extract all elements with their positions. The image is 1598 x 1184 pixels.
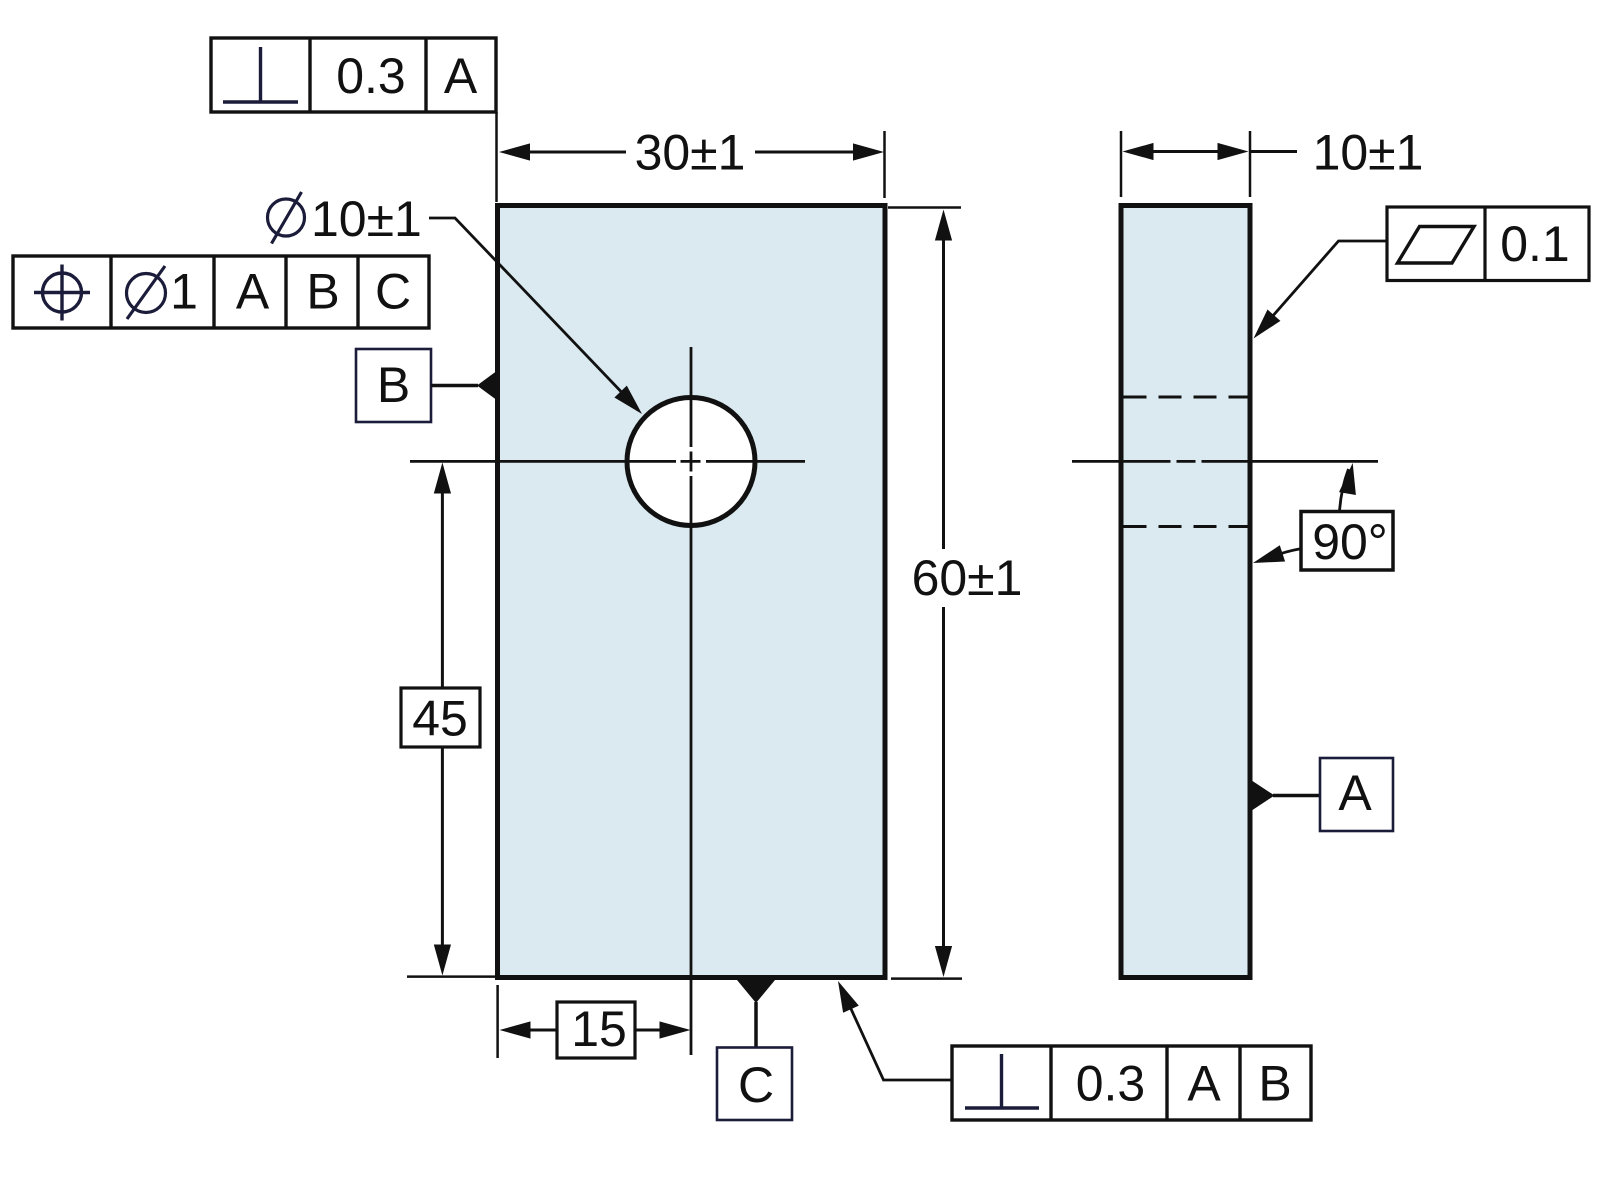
dimension 60±1 line + arrows	[935, 210, 952, 241]
dimension 15 line + arrows	[500, 1021, 531, 1038]
feature control frame (position): position symbol	[43, 273, 82, 312]
feature control frame (parallelism): box	[1387, 207, 1589, 281]
svg-text:A: A	[1338, 765, 1372, 821]
feature control frame (position): diameter symbol	[127, 274, 166, 313]
side view hidden line (hole top)	[1124, 396, 1249, 399]
leader from top frame to plate corner	[495, 112, 498, 202]
dimension 15 extension line (left)	[496, 985, 499, 1058]
datum A leader	[1273, 794, 1320, 798]
datum A label box	[1320, 758, 1393, 831]
svg-text:15: 15	[571, 1001, 627, 1057]
side view centerline	[1072, 460, 1171, 463]
svg-text:90°: 90°	[1312, 514, 1388, 570]
leader from bottom frame to plate bottom edge	[844, 993, 953, 1081]
svg-text:B: B	[1258, 1056, 1291, 1112]
svg-text:0.1: 0.1	[1500, 216, 1570, 272]
svg-text:C: C	[375, 264, 411, 320]
datum B leader	[431, 384, 478, 388]
svg-text:45: 45	[412, 691, 468, 747]
dimension 45 box + text	[401, 688, 480, 747]
dimension 10±1 extension line (right)	[1249, 131, 1252, 197]
dimension 30±1 dimension line + arrows	[499, 143, 530, 160]
svg-text:B: B	[377, 357, 410, 413]
90° lower leader + arrow	[1263, 549, 1302, 561]
datum B triangle	[477, 372, 496, 400]
feature control frame (parallelism): parallelogram symbol	[1398, 227, 1475, 264]
svg-text:10±1: 10±1	[311, 191, 422, 247]
datum C leader	[754, 1002, 758, 1048]
dimension 10±1 line + arrows	[1123, 143, 1154, 160]
datum A triangle	[1253, 781, 1275, 810]
leader from parallelism frame to side view	[1260, 241, 1387, 331]
hole vertical centerline	[690, 347, 693, 447]
dimension 30±1 extension line (right)	[883, 131, 886, 198]
dimension 15 box + text	[557, 1002, 635, 1058]
feature control frame (top): box	[211, 38, 496, 112]
svg-text:60±1: 60±1	[912, 550, 1023, 606]
feature control frame (position): box	[13, 256, 429, 328]
svg-text:A: A	[1187, 1056, 1221, 1112]
side view hidden line (hole bottom)	[1124, 525, 1249, 528]
svg-text:10±1: 10±1	[1313, 125, 1424, 181]
90° note box + text	[1301, 512, 1393, 571]
svg-text:1: 1	[170, 264, 198, 320]
side view plate	[1121, 206, 1250, 978]
feature control frame (bottom): box	[952, 1046, 1311, 1120]
svg-text:A: A	[444, 48, 478, 104]
hole horizontal centerline	[410, 460, 676, 463]
datum B label box	[356, 349, 431, 422]
hole (circle) in front view	[627, 398, 755, 526]
svg-text:0.3: 0.3	[336, 48, 406, 104]
svg-text:B: B	[306, 264, 339, 320]
feature control frame (top): perpendicularity symbol	[259, 47, 262, 102]
svg-text:A: A	[236, 264, 270, 320]
datum C label box	[717, 1048, 792, 1121]
feature control frame (bottom): perpendicularity symbol	[1000, 1054, 1003, 1108]
dimension 45 bottom extension line	[407, 975, 495, 978]
svg-text:0.3: 0.3	[1076, 1056, 1146, 1112]
dimension 45 line + arrows	[434, 463, 451, 494]
hole diameter symbol	[268, 199, 305, 236]
dimension 60±1 extension tick (bottom)	[891, 977, 962, 980]
front view plate	[498, 206, 886, 978]
svg-text:30±1: 30±1	[635, 125, 746, 181]
datum C triangle	[737, 980, 775, 1003]
dimension 10±1 extension line (left)	[1120, 131, 1123, 197]
svg-text:C: C	[738, 1057, 774, 1113]
90° upper leader + arrow	[1340, 469, 1349, 512]
dimension 60±1 extension tick (top)	[888, 206, 961, 209]
leader from diameter label to hole	[429, 218, 631, 402]
